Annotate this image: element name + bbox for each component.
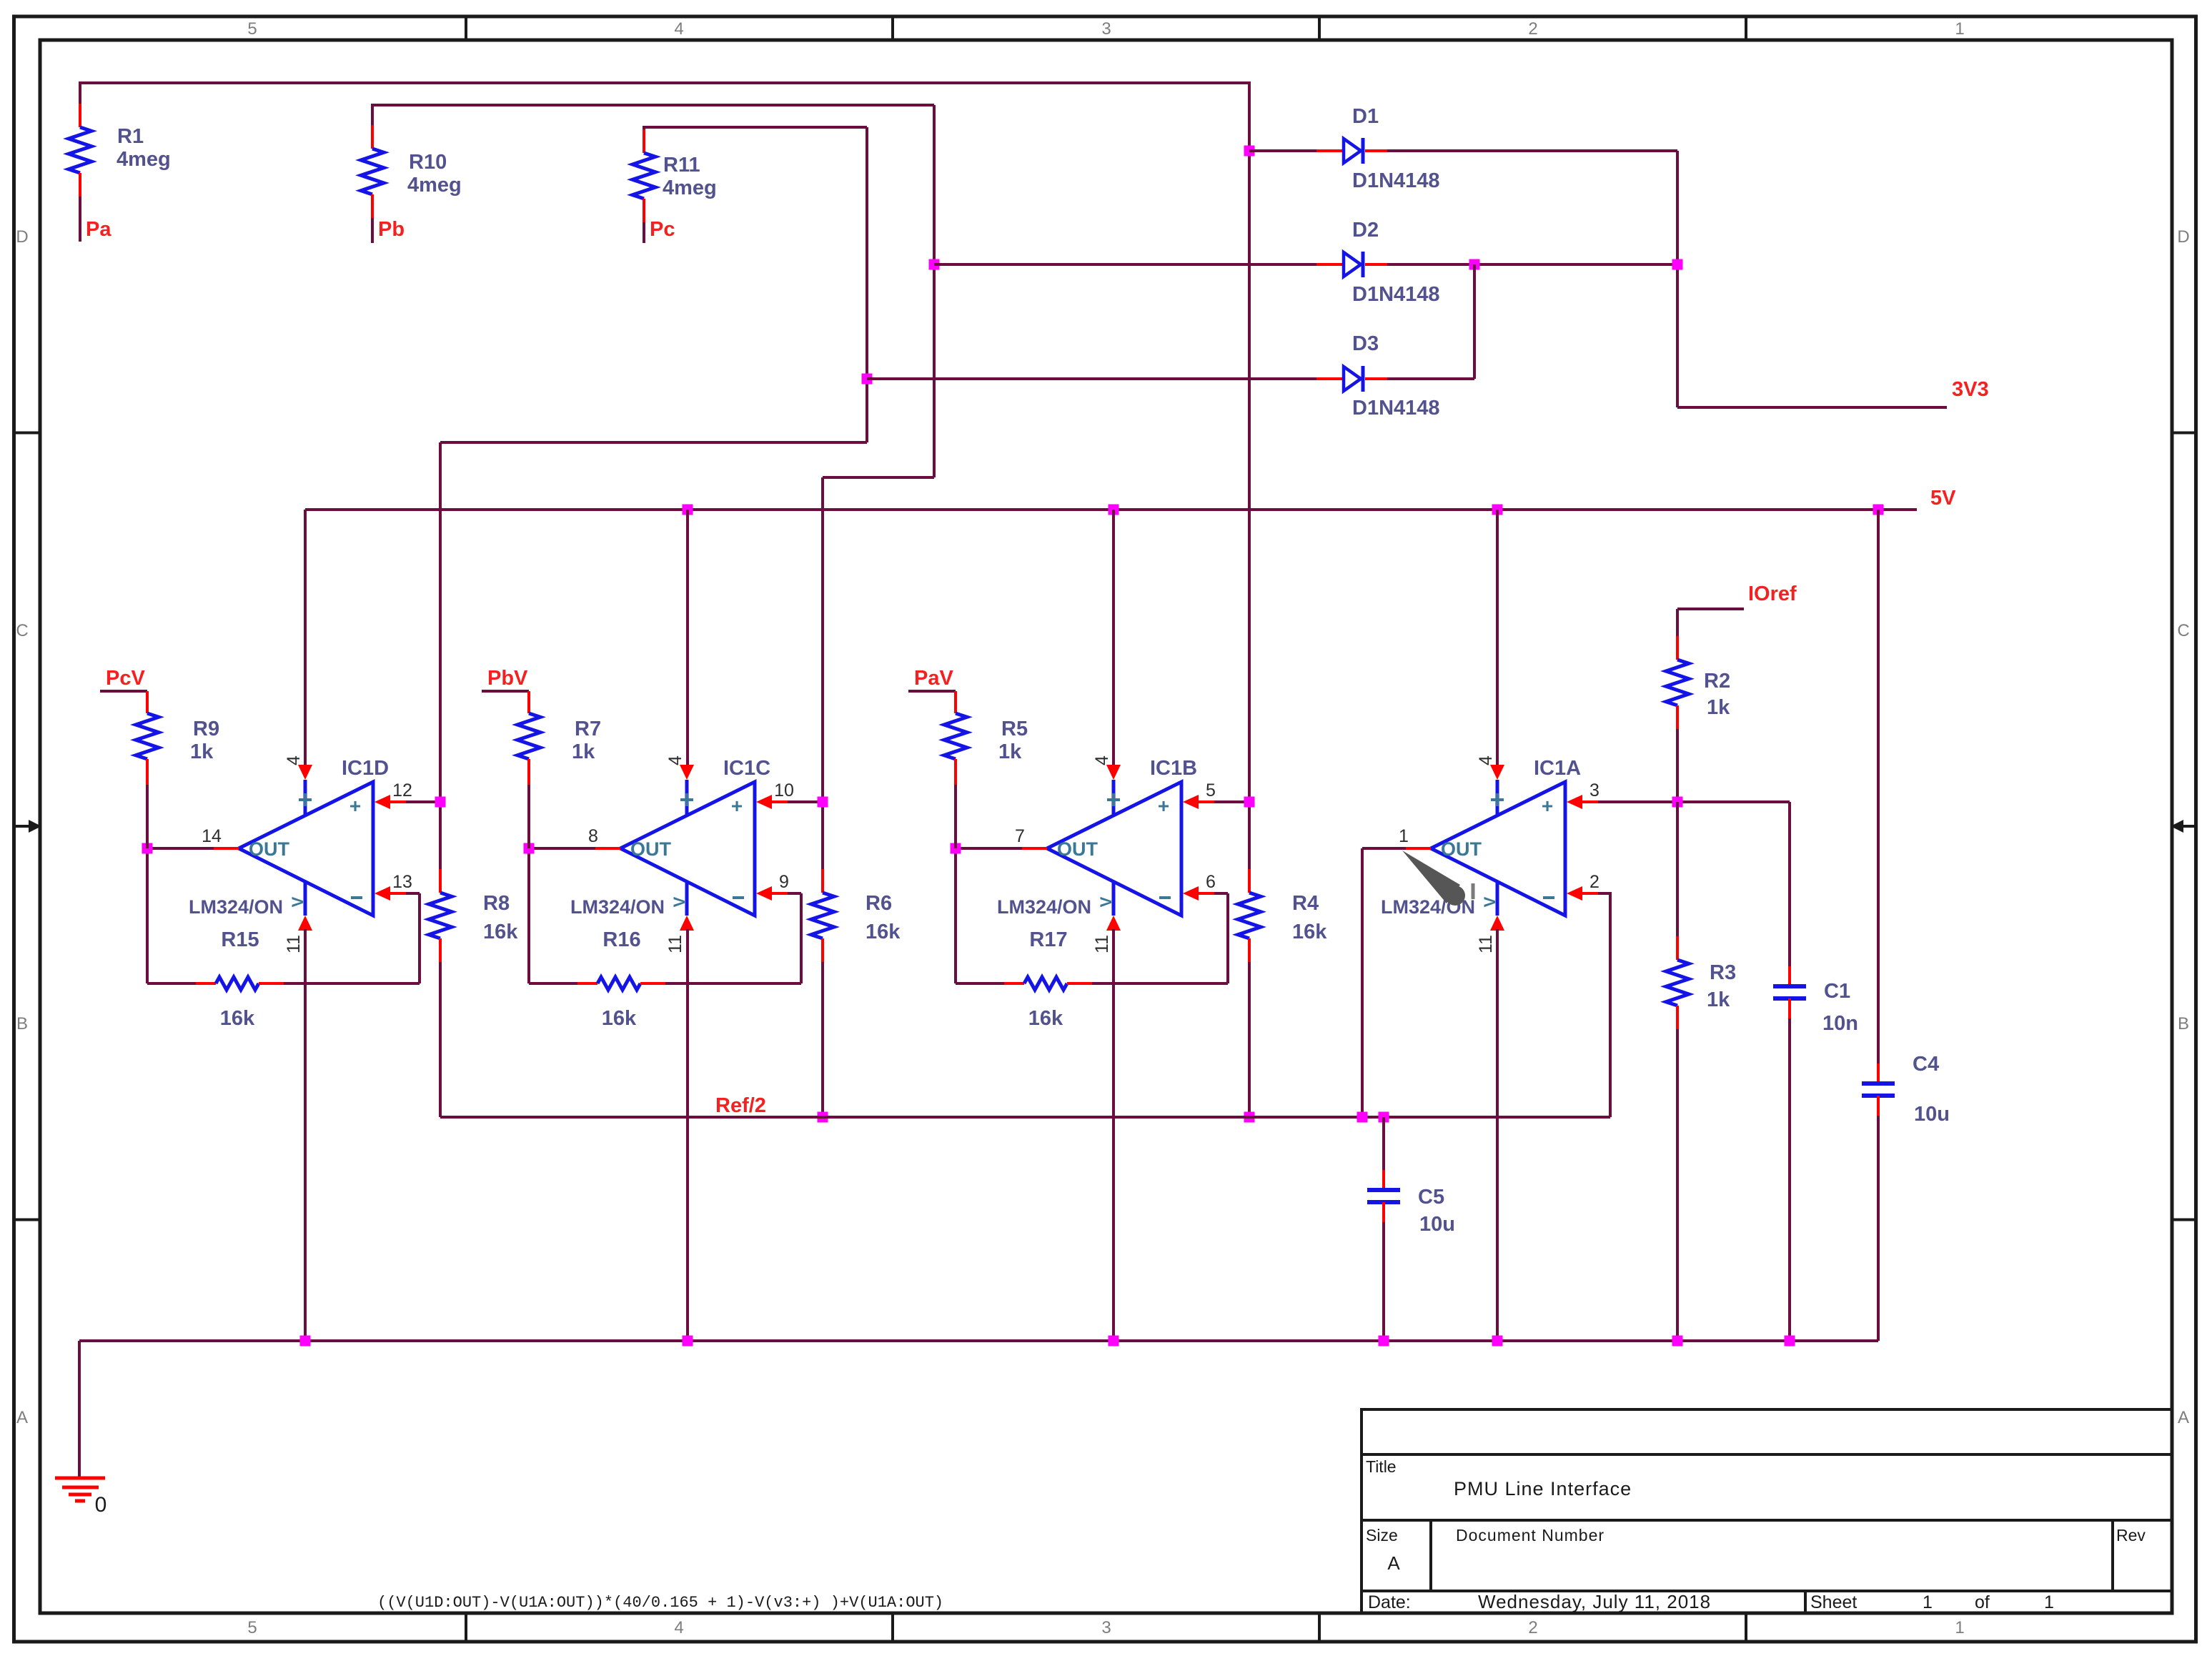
svg-text:((V(U1D:OUT)-V(U1A:OUT))*(40/0: ((V(U1D:OUT)-V(U1A:OUT))*(40/0.165 + 1)-… <box>377 1594 943 1612</box>
svg-text:V: V <box>670 896 688 907</box>
svg-text:5: 5 <box>1206 780 1216 800</box>
svg-text:B: B <box>2178 1014 2189 1033</box>
svg-text:R6: R6 <box>866 892 892 915</box>
svg-text:5: 5 <box>247 1618 257 1637</box>
svg-text:V: V <box>1481 896 1499 907</box>
svg-text:R9: R9 <box>193 718 219 740</box>
svg-text:11: 11 <box>1092 935 1112 953</box>
svg-text:10n: 10n <box>1822 1012 1858 1035</box>
svg-text:4: 4 <box>284 755 304 765</box>
svg-text:LM324/ON: LM324/ON <box>997 896 1091 918</box>
svg-text:11: 11 <box>1476 935 1496 953</box>
svg-text:16k: 16k <box>602 1007 637 1030</box>
svg-text:16k: 16k <box>866 921 901 943</box>
svg-text:11: 11 <box>284 935 304 953</box>
svg-text:1k: 1k <box>572 740 595 763</box>
svg-text:13: 13 <box>392 872 412 892</box>
svg-text:Wednesday, July 11, 2018: Wednesday, July 11, 2018 <box>1478 1591 1711 1612</box>
svg-text:4: 4 <box>1092 755 1112 765</box>
svg-text:3V3: 3V3 <box>1952 378 1989 401</box>
svg-text:LM324/ON: LM324/ON <box>570 896 665 918</box>
svg-text:IC1C: IC1C <box>723 757 770 780</box>
svg-text:+: + <box>1158 795 1169 817</box>
svg-text:8: 8 <box>588 826 598 846</box>
svg-text:11: 11 <box>665 935 685 953</box>
svg-text:PaV: PaV <box>914 667 953 690</box>
svg-text:V: V <box>289 896 307 907</box>
svg-text:PcV: PcV <box>106 667 145 690</box>
svg-text:OUT: OUT <box>249 838 290 860</box>
svg-text:R10: R10 <box>409 151 447 174</box>
svg-text:1: 1 <box>1923 1592 1933 1612</box>
svg-text:16k: 16k <box>483 921 518 943</box>
svg-text:R2: R2 <box>1704 670 1730 693</box>
svg-text:10u: 10u <box>1914 1103 1950 1126</box>
svg-text:4meg: 4meg <box>663 177 717 199</box>
svg-text:Date:: Date: <box>1368 1592 1411 1612</box>
svg-text:Sheet: Sheet <box>1810 1592 1857 1612</box>
svg-text:3: 3 <box>1101 19 1111 39</box>
svg-text:A: A <box>1387 1552 1400 1574</box>
svg-text:2: 2 <box>1528 1618 1537 1637</box>
svg-text:B: B <box>16 1014 28 1033</box>
svg-text:PMU Line Interface: PMU Line Interface <box>1454 1478 1632 1499</box>
svg-text:+: + <box>1542 795 1553 817</box>
svg-text:R16: R16 <box>602 928 640 951</box>
svg-text:0: 0 <box>95 1493 107 1517</box>
svg-text:16k: 16k <box>1292 921 1327 943</box>
svg-text:7: 7 <box>1015 826 1025 846</box>
svg-text:D1N4148: D1N4148 <box>1352 283 1440 306</box>
svg-text:R17: R17 <box>1029 928 1067 951</box>
svg-text:R7: R7 <box>575 718 601 740</box>
svg-text:16k: 16k <box>220 1007 255 1030</box>
svg-text:D: D <box>2177 227 2189 247</box>
svg-text:OUT: OUT <box>1057 838 1098 860</box>
svg-text:1: 1 <box>1955 1618 1964 1637</box>
svg-text:Pb: Pb <box>378 218 405 241</box>
svg-text:R8: R8 <box>483 892 510 915</box>
svg-text:5V: 5V <box>1930 487 1956 510</box>
svg-text:R4: R4 <box>1292 892 1319 915</box>
svg-text:D: D <box>16 227 28 247</box>
svg-text:A: A <box>16 1408 28 1427</box>
svg-text:14: 14 <box>202 826 222 846</box>
svg-text:C4: C4 <box>1913 1053 1939 1076</box>
svg-text:C5: C5 <box>1418 1186 1444 1209</box>
svg-text:PbV: PbV <box>487 667 528 690</box>
svg-text:1k: 1k <box>998 740 1022 763</box>
svg-text:2: 2 <box>1528 19 1537 39</box>
svg-text:10: 10 <box>774 780 794 800</box>
svg-text:3: 3 <box>1101 1618 1111 1637</box>
svg-text:D3: D3 <box>1352 332 1379 355</box>
svg-text:D1N4148: D1N4148 <box>1352 397 1440 420</box>
svg-text:IC1B: IC1B <box>1150 757 1197 780</box>
svg-text:3: 3 <box>1589 780 1600 800</box>
svg-text:R15: R15 <box>221 928 259 951</box>
svg-text:Pc: Pc <box>650 218 675 241</box>
svg-text:16k: 16k <box>1028 1007 1063 1030</box>
svg-text:1: 1 <box>1399 826 1409 846</box>
svg-text:1k: 1k <box>1707 696 1730 719</box>
svg-text:R3: R3 <box>1710 961 1736 984</box>
svg-text:OUT: OUT <box>630 838 672 860</box>
svg-text:5: 5 <box>247 19 257 39</box>
svg-text:IC1A: IC1A <box>1534 757 1581 780</box>
svg-text:6: 6 <box>1206 872 1216 892</box>
svg-text:D1N4148: D1N4148 <box>1352 169 1440 192</box>
svg-text:D2: D2 <box>1352 219 1379 242</box>
svg-text:+: + <box>349 795 361 817</box>
svg-text:12: 12 <box>392 780 412 800</box>
svg-text:V: V <box>1097 896 1115 907</box>
svg-text:C1: C1 <box>1824 980 1850 1003</box>
svg-text:1k: 1k <box>1707 988 1730 1011</box>
svg-text:4: 4 <box>674 19 683 39</box>
svg-text:4meg: 4meg <box>407 174 462 197</box>
svg-text:1: 1 <box>1955 19 1964 39</box>
svg-text:R11: R11 <box>663 154 700 177</box>
svg-text:2: 2 <box>1589 872 1600 892</box>
svg-text:IC1D: IC1D <box>342 757 389 780</box>
svg-text:OUT: OUT <box>1441 838 1482 860</box>
svg-text:Rev: Rev <box>2116 1526 2146 1545</box>
svg-text:Document Number: Document Number <box>1456 1526 1605 1545</box>
svg-text:4: 4 <box>674 1618 683 1637</box>
svg-text:Title: Title <box>1366 1457 1397 1476</box>
svg-text:10u: 10u <box>1419 1213 1455 1236</box>
svg-text:A: A <box>2178 1408 2189 1427</box>
svg-text:D1: D1 <box>1352 105 1379 128</box>
svg-text:C: C <box>16 621 28 640</box>
svg-text:+: + <box>731 795 743 817</box>
svg-text:LM324/ON: LM324/ON <box>189 896 283 918</box>
svg-text:4meg: 4meg <box>116 148 171 171</box>
svg-text:4: 4 <box>665 755 685 765</box>
svg-text:Ref/2: Ref/2 <box>715 1094 766 1117</box>
svg-text:R1: R1 <box>117 125 144 148</box>
svg-text:4: 4 <box>1476 755 1496 765</box>
svg-text:IOref: IOref <box>1748 582 1797 605</box>
svg-text:of: of <box>1975 1592 1990 1612</box>
svg-text:Pa: Pa <box>86 218 111 241</box>
svg-text:1k: 1k <box>190 740 214 763</box>
svg-text:9: 9 <box>779 872 789 892</box>
svg-text:1: 1 <box>2044 1592 2054 1612</box>
svg-text:C: C <box>2177 621 2189 640</box>
svg-text:R5: R5 <box>1001 718 1028 740</box>
svg-text:Size: Size <box>1366 1526 1398 1545</box>
